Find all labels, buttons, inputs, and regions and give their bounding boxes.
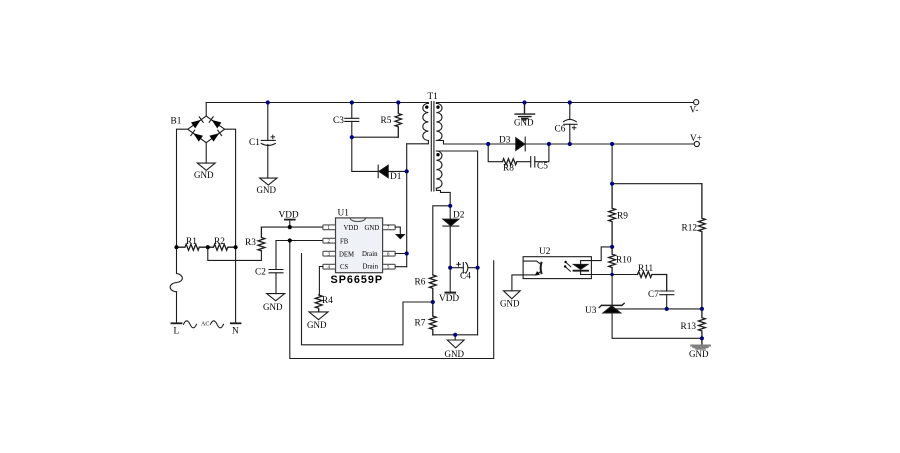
LED inside (574, 264, 588, 269)
svg-text:R10: R10 (616, 256, 632, 266)
core (431, 102, 434, 192)
power VDD bar (aux supply) (446, 292, 456, 294)
svg-text:B1: B1 (171, 117, 182, 127)
wire C7 bottom row to R12/R13 node (667, 308, 702, 310)
svg-text:GND: GND (445, 349, 465, 359)
wire FB feedback long line (290, 241, 494, 359)
wire C3/R5 bottom node (352, 136, 399, 138)
wire U2 LED anode to R9/R10 node (581, 247, 613, 261)
svg-text:C5: C5 (537, 162, 548, 172)
svg-text:AC: AC (201, 322, 209, 328)
optocoupler U2 (523, 247, 591, 279)
wire aux winding bottom to D2 node (436, 188, 450, 206)
wire U2 LED cathode row to R11 (581, 274, 638, 276)
svg-text:R5: R5 (381, 116, 392, 126)
wire DEM long line (302, 254, 433, 345)
power VDD symbol (U1 supply) (285, 220, 295, 228)
primary winding (423, 103, 429, 140)
svg-text:R13: R13 (681, 322, 697, 332)
diode D1 (378, 165, 407, 178)
shunt regulator U3 (599, 303, 624, 313)
bridge rectifier B1 (188, 116, 225, 143)
wire U3 ref row (612, 308, 667, 310)
op-amp U1 (SP6659P controller) (323, 218, 395, 273)
svg-text:R4: R4 (322, 296, 333, 306)
ground under C2 (267, 294, 285, 301)
capacitor C3 (345, 103, 359, 138)
diode D2 (443, 206, 459, 293)
resistor R6 (429, 275, 436, 302)
transformer T1 (423, 92, 442, 191)
resistor R1 (177, 244, 208, 250)
wire FB row (276, 240, 323, 242)
svg-text:GND: GND (307, 320, 327, 330)
light arrows (565, 262, 571, 271)
svg-text:C2: C2 (255, 268, 266, 278)
svg-text:GND: GND (365, 225, 380, 232)
wire U2 emitter to ground (512, 275, 523, 291)
wire V+ rail (secondary bottom to V+ terminal) (436, 141, 694, 145)
wire drain line (406, 144, 408, 267)
wire R7 bottom row (433, 334, 478, 336)
wire U3 anode to ground row (612, 313, 702, 338)
resistor R11 (638, 272, 667, 292)
svg-text:FB: FB (340, 238, 349, 245)
wire top rail left (bridge to transformer primary) (206, 103, 428, 117)
svg-text:Drain: Drain (362, 251, 378, 258)
ground on V- rail (earth symbol) (515, 103, 534, 120)
capacitor C1 (261, 103, 275, 179)
terminal L (172, 322, 182, 324)
capacitor C4 (450, 263, 477, 274)
ground U1 pin (filled) (396, 234, 405, 238)
ground bottom right (hatched) (691, 346, 710, 349)
svg-text:R3: R3 (245, 238, 256, 248)
svg-text:GND: GND (689, 349, 709, 359)
wire U1 GND pin to ground (395, 227, 400, 234)
resistor R5 (395, 103, 401, 138)
svg-text:GND: GND (194, 170, 214, 180)
svg-text:DEM: DEM (339, 251, 354, 258)
svg-text:SP6659P: SP6659P (331, 274, 384, 286)
resistor R9 (609, 184, 616, 247)
svg-text:C1: C1 (249, 138, 260, 148)
wire V- rail (secondary top to V- terminal) (436, 102, 693, 105)
svg-text:C3: C3 (333, 116, 344, 126)
terminal V- (694, 100, 699, 105)
ground under B1 (197, 163, 215, 170)
svg-text:D2: D2 (453, 211, 465, 221)
svg-text:R9: R9 (617, 212, 628, 222)
wire R9 line from V+ rail (611, 144, 613, 184)
capacitor C6 (563, 103, 577, 145)
transistor inside (540, 263, 543, 273)
svg-text:R12: R12 (682, 224, 698, 234)
wire drain pins (395, 254, 407, 267)
wire VDD row (261, 226, 323, 228)
svg-text:U2: U2 (539, 247, 551, 257)
secondary winding 2 (aux) (436, 151, 442, 188)
wire bridge left to L line (177, 129, 188, 247)
resistor R4 (315, 295, 322, 312)
wire D2 node to R6 branch (433, 206, 450, 275)
resistor R8 (503, 159, 517, 165)
ground under C1 (260, 178, 277, 185)
svg-text:Drain: Drain (363, 264, 379, 271)
ground under U2 (504, 291, 521, 299)
svg-text:GND: GND (257, 185, 277, 195)
resistor R7 (429, 302, 436, 335)
wire CS pin to R4 (319, 267, 323, 296)
svg-text:CS: CS (340, 264, 349, 271)
terminal V+ (694, 141, 699, 146)
phase dots (425, 105, 440, 156)
svg-text:L: L (174, 327, 180, 337)
svg-text:VDD: VDD (439, 294, 459, 304)
svg-text:V-: V- (690, 106, 699, 116)
svg-text:R6: R6 (415, 278, 426, 288)
svg-text:N: N (232, 327, 239, 337)
svg-text:VDD: VDD (279, 211, 299, 221)
svg-text:U1: U1 (338, 209, 350, 219)
svg-text:C6: C6 (555, 125, 566, 135)
svg-text:GND: GND (263, 302, 283, 312)
svg-text:VDD: VDD (344, 225, 359, 232)
wire R10 bottom to U3 (611, 275, 613, 306)
wire bridge right to N line (225, 129, 236, 323)
resistor R12 (699, 184, 706, 309)
capacitor C7 (660, 291, 674, 309)
wire R9 top row to R12 (612, 183, 702, 185)
wire snubber node down to D1 (352, 137, 378, 171)
svg-text:R1: R1 (186, 237, 197, 247)
ground bottom middle (447, 335, 464, 348)
svg-text:R11: R11 (638, 264, 654, 274)
resistor R2 (208, 244, 236, 250)
svg-text:R8: R8 (503, 164, 514, 174)
wire primary bottom to drain line (407, 141, 429, 144)
svg-text:D3: D3 (499, 136, 511, 146)
diode D3 (516, 137, 525, 151)
svg-text:R2: R2 (214, 237, 225, 247)
wire L line lower (176, 292, 178, 324)
resistor R10 (609, 247, 616, 275)
wire R1/R2 tap to R3 bottom (208, 247, 262, 260)
svg-text:U3: U3 (585, 306, 597, 316)
svg-text:R7: R7 (415, 319, 426, 329)
secondary winding 1 (436, 103, 442, 140)
resistor R13 (699, 309, 706, 345)
svg-text:D1: D1 (390, 172, 402, 182)
wire R8/C5 branch down legs (488, 144, 549, 162)
svg-text:C4: C4 (460, 272, 471, 282)
resistor R3 (258, 227, 265, 251)
svg-text:T1: T1 (428, 92, 439, 102)
fuse squiggle on L line (170, 247, 182, 292)
wire bridge bottom to ground (205, 143, 207, 163)
ground under R4 (309, 312, 328, 320)
capacitor C2 (269, 241, 283, 294)
svg-text:GND: GND (514, 118, 534, 128)
AC source symbols (184, 321, 224, 328)
svg-text:C7: C7 (648, 290, 659, 300)
terminal N (231, 322, 241, 324)
svg-text:V+: V+ (690, 134, 702, 144)
svg-text:GND: GND (500, 299, 520, 309)
wire aux winding top to right vertical (436, 151, 477, 335)
capacitor C5 (531, 157, 535, 167)
